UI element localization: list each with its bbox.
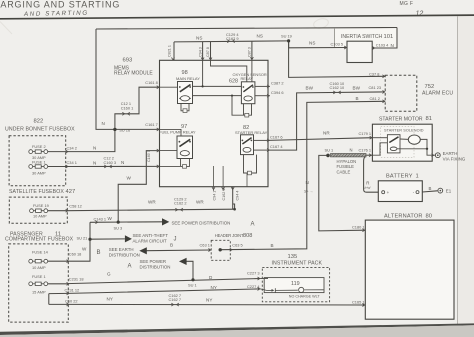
alarm ECU 752 dashed box <box>306 71 454 111</box>
inertia switch 101 box <box>309 34 394 63</box>
svg-text:N: N <box>121 160 124 165</box>
power distribution arrow lower <box>179 258 187 265</box>
wire fuse1 tail <box>48 166 68 168</box>
wire B header joint to alarm C81 2 <box>220 101 385 249</box>
starter internal wires <box>372 138 435 156</box>
svg-text:C58 12: C58 12 <box>69 204 82 209</box>
starter motor symbol <box>408 135 420 144</box>
svg-text:S+ →: S+ → <box>304 189 313 193</box>
svg-text:SU 21: SU 21 <box>77 236 88 241</box>
svg-text:C63 1: C63 1 <box>200 243 210 248</box>
dashed outline <box>385 75 417 111</box>
svg-text:427: 427 <box>66 189 76 195</box>
wire drop C87 3 <box>251 41 253 60</box>
svg-text:ALARM ECU: ALARM ECU <box>422 90 453 96</box>
svg-text:N: N <box>350 147 353 152</box>
svg-text:W: W <box>82 246 87 251</box>
svg-text:HEADER JOINT: HEADER JOINT <box>215 233 244 238</box>
svg-text:SU 1: SU 1 <box>325 148 334 153</box>
svg-text:C81 23: C81 23 <box>369 85 382 90</box>
svg-text:W: W <box>127 175 132 180</box>
dashed outline <box>211 240 230 260</box>
svg-text:C37 8: C37 8 <box>369 71 379 76</box>
svg-text:101: 101 <box>384 34 394 40</box>
svg-text:DISTRIBUTION: DISTRIBUTION <box>109 253 140 258</box>
svg-text:80: 80 <box>426 213 432 219</box>
svg-text:STARTER SOLENOID: STARTER SOLENOID <box>384 128 424 132</box>
svg-text:C94 4: C94 4 <box>236 191 240 201</box>
svg-text:RELAY: RELAY <box>241 76 254 81</box>
module internal bus y86 <box>160 60 252 96</box>
svg-text:808: 808 <box>243 233 252 239</box>
svg-text:C60 18: C60 18 <box>69 252 82 257</box>
wire B earth distribution to header joint <box>146 249 211 252</box>
svg-text:693: 693 <box>123 58 133 64</box>
svg-text:822: 822 <box>34 119 44 125</box>
junction SU 19 <box>287 39 290 42</box>
earth via fixing terminal <box>435 151 465 161</box>
battery 1 box <box>378 173 422 201</box>
wire BW starter relay to alarm C81 23 <box>268 92 385 150</box>
wire fuse2 tail <box>48 151 68 153</box>
svg-text:SU 3: SU 3 <box>114 225 123 230</box>
wire NY C231 12 to instrument pack C227 4 <box>49 289 260 294</box>
svg-text:COMPARTMENT FUSEBOX: COMPARTMENT FUSEBOX <box>5 237 74 243</box>
svg-text:C821 1: C821 1 <box>168 45 172 57</box>
svg-text:C143 1: C143 1 <box>94 216 107 221</box>
svg-text:C162 7: C162 7 <box>169 297 182 302</box>
svg-text:C94 1: C94 1 <box>212 191 216 201</box>
svg-text:AND STARTING: AND STARTING <box>23 10 89 18</box>
wire fuse1 lower tail <box>48 283 69 285</box>
svg-text:C167 6: C167 6 <box>270 134 283 139</box>
wire fuse2 N to SU16 riser <box>67 129 115 151</box>
alternator 80 box <box>365 213 454 319</box>
svg-text:135: 135 <box>288 254 298 260</box>
main relay 98 <box>176 70 200 104</box>
svg-text:SEE EARTH: SEE EARTH <box>109 247 134 252</box>
svg-text:C176 1: C176 1 <box>359 147 372 152</box>
svg-text:NS: NS <box>196 35 202 40</box>
oxygen relay pins to module edge <box>232 86 270 117</box>
svg-text:+: + <box>387 190 390 195</box>
svg-text:N: N <box>93 160 96 165</box>
svg-text:NY: NY <box>206 297 212 302</box>
svg-text:752: 752 <box>425 84 435 90</box>
connector pin marks <box>66 40 434 307</box>
svg-text:81: 81 <box>426 116 432 122</box>
svg-text:C103 5: C103 5 <box>331 41 344 46</box>
svg-text:J: J <box>174 236 177 242</box>
svg-text:98: 98 <box>182 70 188 76</box>
svg-text:FUSE 2: FUSE 2 <box>32 144 46 149</box>
svg-text:ALARM CIRCUIT: ALARM CIRCUIT <box>133 239 167 244</box>
svg-text:C34 1: C34 1 <box>67 160 77 165</box>
wire G fuse to instrument pack C227 3 <box>67 279 260 284</box>
wire fuse1 N to module C160 3 <box>67 165 159 167</box>
svg-text:STARTER RELAY: STARTER RELAY <box>235 130 268 135</box>
faint scribble <box>313 17 330 30</box>
svg-text:SATELLITE FUSEBOX: SATELLITE FUSEBOX <box>9 189 64 195</box>
wire fuse14 tail <box>48 260 69 262</box>
svg-text:C160 5: C160 5 <box>147 150 151 162</box>
wire fusible cable tail to starter box <box>366 154 372 156</box>
svg-text:C167 4: C167 4 <box>270 144 283 149</box>
svg-text:INSTRUMENT PACK: INSTRUMENT PACK <box>272 260 323 266</box>
svg-text:B: B <box>271 243 274 248</box>
svg-text:FUSE 14: FUSE 14 <box>32 250 49 255</box>
svg-text:ALTERNATOR: ALTERNATOR <box>384 214 423 220</box>
svg-text:C394 6: C394 6 <box>271 90 284 95</box>
wire SU16 up through C12 1 connector to module C161 8 <box>115 87 160 129</box>
junction SU 16 <box>113 128 116 131</box>
junction SU 21 <box>88 238 91 241</box>
earth terminal E1 <box>438 188 452 193</box>
svg-text:119: 119 <box>291 281 300 287</box>
svg-text:N: N <box>306 180 309 185</box>
svg-text:BATTERY: BATTERY <box>386 174 413 180</box>
svg-text:WR: WR <box>196 200 204 205</box>
svg-text:C160 3: C160 3 <box>104 160 117 165</box>
starter motor 81 box <box>372 116 432 161</box>
svg-text:NS: NS <box>257 34 263 39</box>
svg-text:G: G <box>107 271 111 276</box>
svg-text:C81 2: C81 2 <box>370 96 380 101</box>
svg-text:A: A <box>128 264 132 270</box>
svg-text:C227 3: C227 3 <box>247 271 260 276</box>
header joint 808 dashed box <box>170 233 274 260</box>
svg-text:N: N <box>93 146 96 151</box>
svg-text:FUSE 19: FUSE 19 <box>33 203 49 208</box>
wire W to power distribution arrow <box>90 221 162 224</box>
svg-text:B: B <box>97 250 101 256</box>
dashed outline <box>262 267 329 301</box>
svg-text:B: B <box>356 96 359 101</box>
dashed outline <box>9 197 67 223</box>
fuel pump relay 97 <box>159 124 196 159</box>
svg-text:MG F: MG F <box>400 1 414 7</box>
dashed outline <box>9 244 69 322</box>
earth distribution arrow <box>139 247 147 254</box>
power distribution arrow upper <box>162 218 169 225</box>
label hypalon fusible cable <box>337 159 357 174</box>
svg-text:WR: WR <box>148 200 156 205</box>
wire NS to inertia switch <box>289 41 347 48</box>
oxygen sensor relay 628 <box>229 72 267 104</box>
wire battery negative to earth E1 <box>422 191 437 192</box>
svg-text:FUSE 1: FUSE 1 <box>32 160 46 165</box>
wire drop C94 3 <box>202 42 204 61</box>
wire N battery junction SU1 to alternator C180 1 <box>319 155 366 231</box>
starter relay pins and loop <box>214 140 269 191</box>
jog join to WR corner <box>233 204 235 209</box>
fuse 14 <box>29 250 82 270</box>
svg-text:DISTRIBUTION: DISTRIBUTION <box>140 264 171 269</box>
fuel pump relay loop below <box>160 129 190 168</box>
svg-text:B: B <box>429 186 432 191</box>
fuse 2 <box>29 144 97 160</box>
wire A power distribution to SU1 <box>186 261 193 279</box>
svg-text:B: B <box>170 243 173 248</box>
wire W fuse14 riser <box>67 222 90 261</box>
wire module coil drop to WR <box>232 187 234 210</box>
svg-text:SEE ANTI-THEFT: SEE ANTI-THEFT <box>133 233 169 238</box>
svg-text:CABLE: CABLE <box>337 169 351 174</box>
junction WR drop <box>233 208 236 211</box>
svg-text:C94 3: C94 3 <box>198 47 202 57</box>
junction SU 1 battery <box>326 154 330 158</box>
svg-text:C387 2: C387 2 <box>271 81 284 86</box>
dashed outline <box>381 126 414 157</box>
junction SU 3 <box>117 221 120 224</box>
svg-text:15 AMP: 15 AMP <box>32 289 46 294</box>
svg-text:C161 8: C161 8 <box>145 80 158 85</box>
wire fuse19 tail <box>48 210 68 212</box>
svg-text:C162 4: C162 4 <box>222 189 226 201</box>
svg-text:E1: E1 <box>446 189 452 194</box>
page right edge line <box>457 16 459 325</box>
inertia patch region <box>335 28 398 48</box>
svg-text:628: 628 <box>229 78 238 84</box>
svg-text:NR: NR <box>323 131 330 136</box>
svg-text:C160 1: C160 1 <box>121 106 134 111</box>
title rule <box>0 15 474 19</box>
wire NS top bus <box>174 41 289 42</box>
wire N left vertical to SU16 <box>96 29 115 129</box>
svg-text:10 AMP: 10 AMP <box>32 265 46 270</box>
satellite fusebox 427 <box>9 189 75 223</box>
svg-text:NY: NY <box>107 297 113 302</box>
fuse 19 <box>30 203 82 218</box>
svg-text:VIA FIXING: VIA FIXING <box>443 156 466 161</box>
wire NY C60 22 to alternator C165 1 <box>49 303 366 306</box>
svg-text:UNDER BONNET FUSEBOX: UNDER BONNET FUSEBOX <box>5 127 75 133</box>
no charge warning lamp <box>260 287 323 292</box>
wire SU16 to module C161 7 <box>115 128 160 130</box>
svg-text:C162 2: C162 2 <box>174 201 187 206</box>
svg-text:MAIN RELAY: MAIN RELAY <box>176 76 200 81</box>
svg-text:RELAY MODULE: RELAY MODULE <box>114 71 153 77</box>
wire NY fusebox internal link <box>48 294 50 305</box>
svg-text:C87 3: C87 3 <box>248 47 252 57</box>
svg-text:30 AMP: 30 AMP <box>32 171 46 176</box>
svg-text:INERTIA SWITCH: INERTIA SWITCH <box>341 34 383 40</box>
svg-text:FUEL PUMP RELAY: FUEL PUMP RELAY <box>159 129 196 134</box>
svg-text:NY: NY <box>211 285 217 290</box>
svg-text:C87 8: C87 8 <box>206 47 210 57</box>
starter relay 82 <box>235 125 268 154</box>
svg-text:12: 12 <box>416 11 424 18</box>
svg-text:C63 5: C63 5 <box>232 243 242 248</box>
svg-text:W: W <box>108 216 113 221</box>
anti-theft arrow <box>125 235 132 242</box>
fuse 1 <box>29 156 125 176</box>
svg-text:NS: NS <box>309 41 315 46</box>
instrument pack 135 <box>262 254 329 302</box>
passenger compartment fusebox 11 <box>5 231 74 322</box>
junction SU 1 lower <box>191 278 194 281</box>
wire W anti-theft branch <box>90 238 125 240</box>
instrument pack G lead <box>260 278 268 280</box>
svg-text:SEE POWER: SEE POWER <box>140 259 167 264</box>
svg-text:BW: BW <box>353 85 361 90</box>
hypalon fusible cable <box>331 154 367 157</box>
starter solenoid contact <box>387 135 400 153</box>
wire battery feed with curve <box>364 156 380 192</box>
svg-text:HARGING AND STARTING: HARGING AND STARTING <box>0 0 120 9</box>
svg-text:N: N <box>391 43 394 48</box>
wire NS corner drop to module C82 1 <box>173 42 175 60</box>
dashed outline <box>9 136 66 186</box>
svg-text:SU 19: SU 19 <box>281 33 292 38</box>
wire WR satellite fuse to module drop <box>67 209 234 211</box>
junction header joint <box>219 248 222 251</box>
svg-text:h+d: h+d <box>365 186 371 190</box>
svg-text:1: 1 <box>416 173 419 179</box>
svg-text:C34 2: C34 2 <box>67 145 77 150</box>
svg-text:SEE POWER DISTRIBUTION: SEE POWER DISTRIBUTION <box>172 220 231 225</box>
svg-text:C179 1: C179 1 <box>359 131 372 136</box>
fuse 1 passenger <box>29 274 84 295</box>
main relay loop below <box>181 104 189 113</box>
page bottom edge shadow <box>0 323 474 335</box>
svg-text:C161 7: C161 7 <box>145 122 158 127</box>
wire N inertia riser <box>372 28 397 49</box>
MEMS relay module 693 box <box>114 58 268 187</box>
junction starter internal <box>426 148 428 150</box>
svg-text:SU 16: SU 16 <box>119 127 130 132</box>
svg-text:R: R <box>366 180 369 185</box>
svg-text:C231 18: C231 18 <box>69 277 84 282</box>
svg-text:FUSE 1: FUSE 1 <box>32 274 46 279</box>
svg-text:A: A <box>251 221 255 227</box>
wire drop C87 8 <box>210 42 212 61</box>
svg-text:C162 10: C162 10 <box>330 85 346 90</box>
svg-text:SU 1: SU 1 <box>188 282 197 287</box>
svg-text:BW: BW <box>306 86 314 91</box>
svg-text:N: N <box>102 121 105 126</box>
under bonnet fusebox 822 <box>5 119 75 186</box>
wire NS drop to alarm C37 8 <box>289 41 386 78</box>
svg-text:C103 4: C103 4 <box>376 43 389 48</box>
wire W riser SU3 to module C160 5 <box>118 151 159 223</box>
page corner diagonal <box>0 22 12 35</box>
svg-text:STARTER MOTOR: STARTER MOTOR <box>379 117 423 123</box>
wire NR starter relay to starter motor <box>268 138 372 141</box>
svg-text:10 AMP: 10 AMP <box>33 214 47 219</box>
wire N top feed horizontal <box>96 28 397 30</box>
junction internal C94 <box>202 85 204 87</box>
svg-text:NO CHARGE WLT: NO CHARGE WLT <box>289 294 321 298</box>
